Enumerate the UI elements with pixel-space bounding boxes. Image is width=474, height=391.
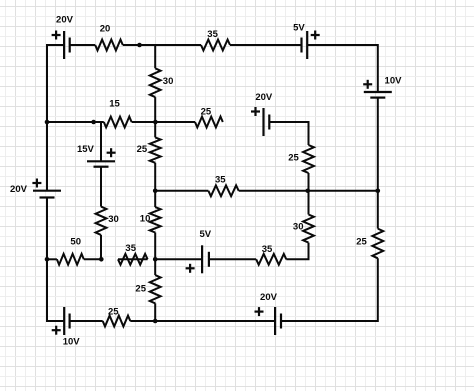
battery 10V right <box>364 92 392 98</box>
wire column x155: top rail to resistor 30 <box>154 45 156 68</box>
battery 5V top <box>302 31 308 59</box>
resistor 25 right rail <box>372 229 383 259</box>
plus sign of battery 20V bottom <box>255 307 264 316</box>
resistor 25 column x155 upper <box>150 137 161 162</box>
node row4 at column x155 <box>153 257 158 262</box>
wire column x101: row2 branch to battery 15V <box>100 122 102 161</box>
resistor 35 row4 right <box>256 254 286 265</box>
svg-text:10V: 10V <box>385 75 403 86</box>
node bottom rail at column x155 <box>153 319 158 324</box>
battery 20V bottom <box>275 307 281 335</box>
wire column x308: resistor 25 to node row3 <box>308 173 310 191</box>
wire column x155: resistor 25 to row3 node <box>154 163 156 191</box>
svg-text:25: 25 <box>201 107 212 118</box>
wire top rail: battery 20V to resistor 20 <box>70 44 96 46</box>
wire top-left corner: left rail top <box>47 45 64 122</box>
battery 20V left rail <box>33 191 61 198</box>
svg-text:20V: 20V <box>255 92 273 103</box>
wire row2: resistor 15 to resistor 25 <box>132 121 195 123</box>
resistor 35 row4 left <box>118 254 148 265</box>
svg-text:15V: 15V <box>77 144 95 155</box>
wire row2 corner: battery 20V right to resistor 25 column <box>269 122 308 145</box>
plus sign of battery 15V <box>107 148 116 157</box>
wire top-right corner: battery 5V to 10V battery stem <box>307 45 378 92</box>
svg-text:50: 50 <box>70 237 81 248</box>
svg-text:25: 25 <box>356 237 367 248</box>
svg-text:20V: 20V <box>56 14 74 25</box>
plus sign of battery 5V top <box>311 31 320 40</box>
svg-text:20V: 20V <box>260 292 278 303</box>
plus sign of battery 10V bottom <box>52 326 61 335</box>
resistor 25 row2 <box>195 117 223 128</box>
node row3 at column x155 <box>153 189 158 194</box>
resistor 35 row3 <box>208 185 238 196</box>
wire column x308: node row3 to resistor 30 <box>308 191 310 215</box>
wire left rail: battery 20V short plate to row4 node <box>46 198 48 260</box>
svg-text:15: 15 <box>109 98 120 109</box>
svg-text:30: 30 <box>108 214 119 225</box>
wire row4: battery 5V to node x155 <box>155 258 202 260</box>
wire right rail: node row3 to resistor 25 <box>377 191 379 229</box>
plus sign of battery 5V row4 <box>186 264 195 273</box>
svg-text:35: 35 <box>125 243 136 254</box>
svg-text:10: 10 <box>140 214 151 225</box>
svg-text:35: 35 <box>262 244 273 255</box>
node after resistor 20 <box>137 43 142 48</box>
resistor 25 column x155 lower <box>150 275 161 303</box>
resistor 20 <box>95 40 123 51</box>
svg-text:30: 30 <box>163 76 174 87</box>
wire column x101: resistor 30 to row4 node <box>100 235 102 259</box>
resistor 10 column x155 <box>150 207 161 232</box>
resistor 30 column x308 <box>303 215 314 243</box>
svg-text:5V: 5V <box>199 229 211 240</box>
wire row4: resistor 35 to resistor 50 <box>84 258 101 260</box>
node row2 before branch x101 <box>91 120 96 125</box>
wire bottom-left corner: battery 10V to left rail <box>47 259 64 321</box>
battery 5V row4 <box>202 245 209 273</box>
node row2 at column x155 <box>153 120 158 125</box>
wire row3: node x155 to resistor 35 <box>155 190 208 192</box>
svg-text:5V: 5V <box>293 22 305 33</box>
battery 10V bottom <box>64 307 69 335</box>
wire left rail: row2 node down to battery 20V long plate <box>46 122 48 191</box>
wire bottom rail: battery 20V to node at x155 <box>155 320 275 322</box>
svg-text:35: 35 <box>207 29 218 40</box>
wire column x155: resistor 10 to row4 node <box>154 233 156 260</box>
battery 20V top-left <box>64 31 70 59</box>
wire row3: node x308 to right rail <box>309 190 378 192</box>
wire row3: resistor 35 to node x308 <box>239 190 309 192</box>
resistor 15 <box>104 117 132 128</box>
node row4 at left rail <box>45 257 50 262</box>
wire column x155: resistor 25 to bottom rail <box>154 303 156 321</box>
wire top rail: resistor 20 to resistor 35 through node <box>123 44 201 46</box>
resistor 25 bottom rail <box>103 316 131 327</box>
wire column x155: resistor 30 to row2 node <box>154 97 156 122</box>
node row3 at column x308 <box>306 189 311 194</box>
svg-text:35: 35 <box>215 174 226 185</box>
wire right rail: 10V battery to node row3 <box>377 98 379 191</box>
wire bottom rail: node to resistor 25 <box>130 320 155 322</box>
wire bottom-right corner: resistor 25 down to bottom rail <box>281 258 378 321</box>
wire column x155: row4 node to resistor 25 <box>154 259 156 275</box>
svg-text:25: 25 <box>137 144 148 155</box>
svg-text:20V: 20V <box>10 184 28 195</box>
wire bottom rail: resistor 25 to battery 10V <box>70 320 103 322</box>
resistor 25 column x308 <box>303 145 314 173</box>
wire column x155: row2 node to resistor 25 <box>154 122 156 137</box>
plus sign of battery 10V right <box>363 80 372 89</box>
wire column x308 corner: resistor 30 down to row4 <box>286 243 308 260</box>
resistor 30 column x101 <box>96 207 107 235</box>
wire row2: left rail to resistor 15 <box>47 121 104 123</box>
resistor 50 <box>57 254 84 265</box>
wire top rail: resistor 35 to battery 5V <box>230 44 302 46</box>
wire row4: node x155 to resistor 35 <box>118 258 148 260</box>
battery 15V <box>87 161 115 166</box>
battery 20V row2 <box>264 108 270 136</box>
svg-text:10V: 10V <box>63 336 81 347</box>
svg-text:25: 25 <box>108 306 119 317</box>
svg-text:30: 30 <box>293 221 304 232</box>
svg-text:20: 20 <box>100 23 111 34</box>
svg-text:25: 25 <box>135 284 146 295</box>
plus sign of battery 20V row2 <box>251 107 260 116</box>
wire column x155: row3 node to resistor 10 <box>154 191 156 207</box>
plus sign of battery 20V left rail <box>32 179 41 188</box>
node row4 at column x101 <box>99 257 104 262</box>
node row3 at right rail <box>376 189 381 194</box>
resistor 30 column x155 top <box>150 68 161 97</box>
resistor 35 top <box>201 40 230 51</box>
svg-text:25: 25 <box>288 152 299 163</box>
wire row4: resistor 35 to battery 5V <box>209 258 256 260</box>
node left rail row2 <box>45 120 50 125</box>
wire column x101: battery 15V to resistor 30 <box>100 167 102 207</box>
wire row4: resistor 50 to left rail <box>47 258 57 260</box>
plus sign of battery 20V top-left <box>52 31 61 40</box>
